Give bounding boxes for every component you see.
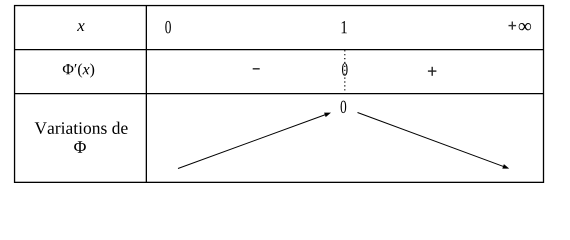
header Variations de Phi, line 2 — [74, 141, 86, 152]
zero of Phi' — [342, 63, 348, 75]
infinity symbol — [519, 23, 531, 30]
falling arrow shaft — [358, 113, 505, 167]
row divider 1 — [15, 49, 544, 51]
dotted separator line — [344, 50, 346, 92]
maximum value 0 — [341, 101, 347, 113]
header Phi'(x) — [63, 63, 94, 77]
value 0 (row x) — [165, 21, 171, 33]
plus sign — [428, 67, 437, 76]
minus sign — [253, 68, 260, 70]
header x — [77, 23, 85, 31]
falling arrow head — [502, 164, 509, 169]
row divider 2 — [15, 93, 544, 95]
rising arrow shaft — [178, 115, 326, 169]
value 1 (row x) — [342, 21, 347, 33]
header Variations de Phi, line 1 — [35, 122, 128, 134]
plus of +infinity — [509, 22, 517, 30]
rising arrow head — [324, 113, 331, 118]
table outer border — [15, 6, 544, 183]
column divider — [145, 6, 147, 183]
